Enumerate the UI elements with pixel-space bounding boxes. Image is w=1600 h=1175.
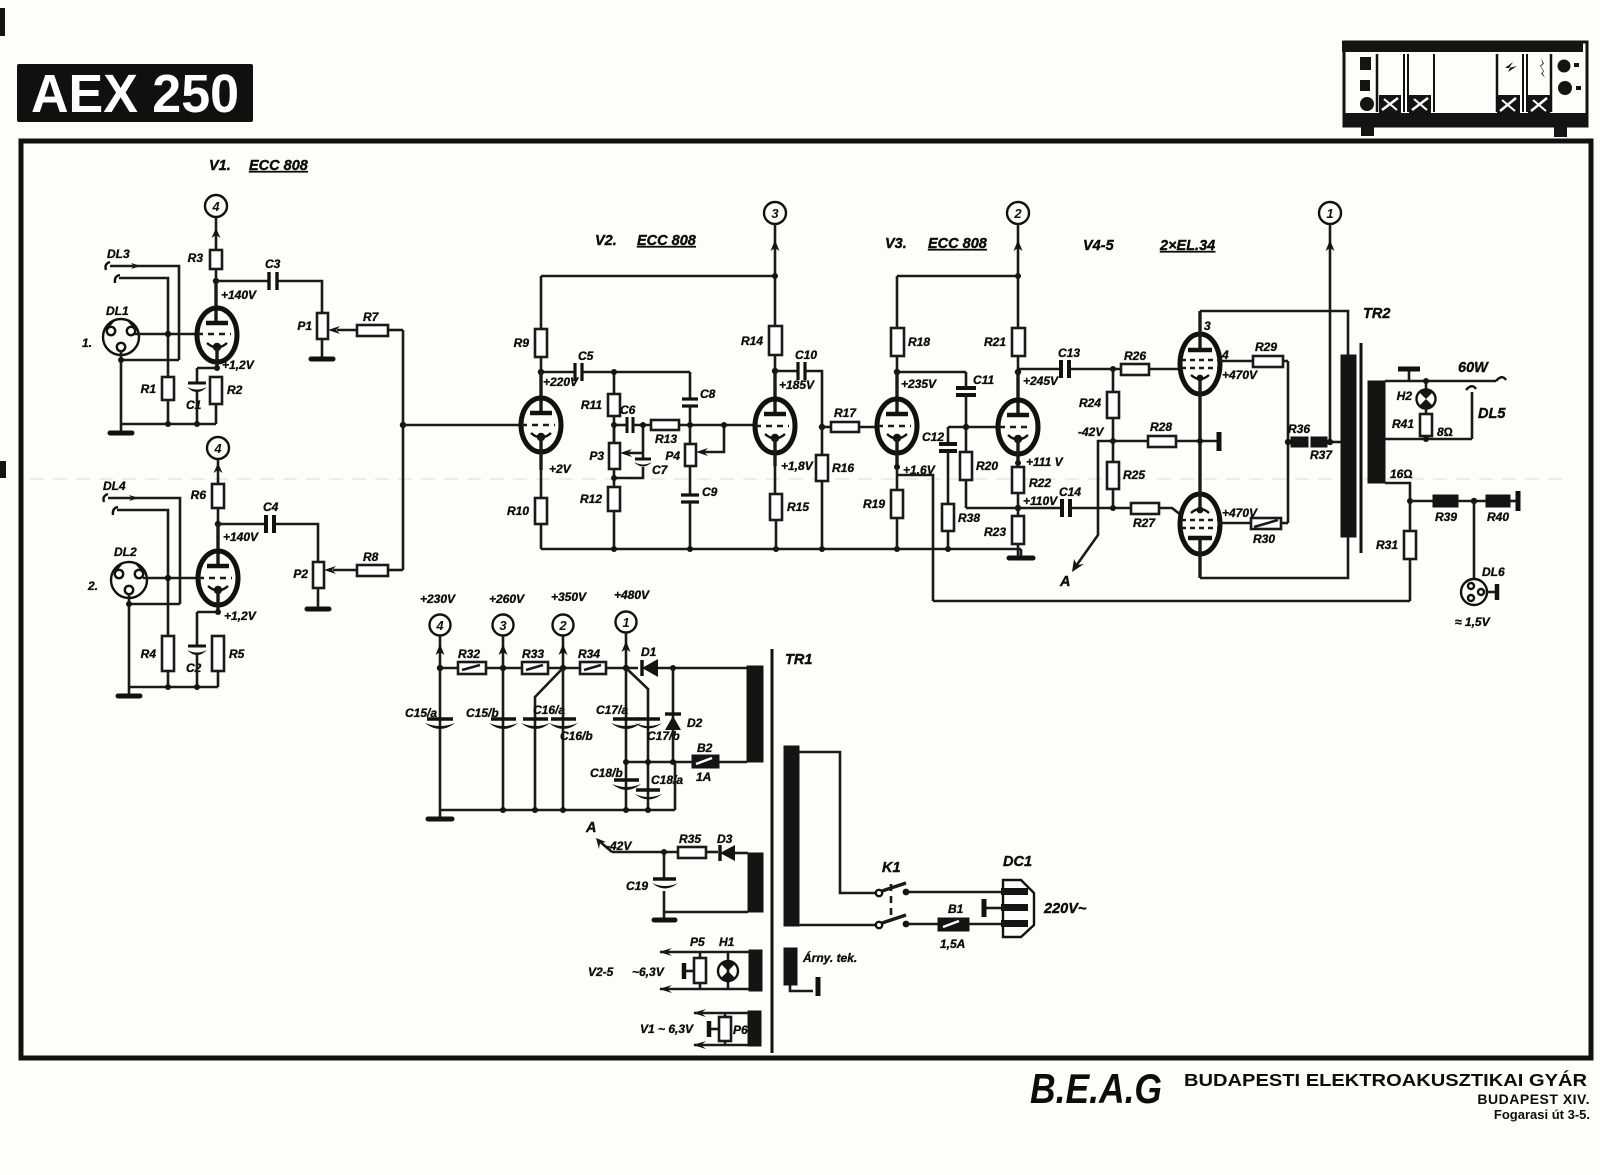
terminal 1 psu [616,612,637,669]
wire diagonal to C16a [535,668,563,810]
svg-text:C8: C8 [700,387,716,401]
svg-text:60W: 60W [1458,360,1489,376]
svg-text:BUDAPESTI ELEKTROAKUSZTIKAI GY: BUDAPESTI ELEKTROAKUSZTIKAI GYÁR [1184,1069,1587,1090]
wire DL2 shell down [128,594,131,687]
diode D1 [641,645,747,677]
resistor R33 [522,647,580,674]
resistor R6 [191,484,224,508]
resistor R25 [1107,441,1145,508]
svg-text:B1: B1 [948,902,964,916]
junction screen bus [1285,439,1291,445]
svg-text:2.: 2. [87,579,98,593]
tube V5 pentode EL34 mirrored [1180,441,1220,578]
svg-text:C6: C6 [620,403,636,417]
node bias midpoint [1110,438,1116,444]
svg-text:C17/b: C17/b [647,729,680,743]
node cathode V1b [215,609,221,615]
wire cap leg C17a [625,668,628,810]
resistor R19 [863,467,903,549]
wire DL1 shell down [120,351,123,424]
wire V4 plate to TR2 [1200,311,1348,356]
resistor R28 [1113,420,1200,447]
wire feedback takeoff [897,475,933,601]
rail V2 supply [541,275,775,278]
bus junctions [611,546,617,552]
wire R9 to plate node [540,357,543,372]
capacitor C9 [681,466,718,549]
svg-text:R40: R40 [1487,510,1509,524]
svg-text:P1: P1 [297,319,312,333]
svg-text:+1,8V: +1,8V [781,459,814,473]
resistor R30 screen V5 [1219,518,1288,546]
resistor R13 [651,420,755,446]
svg-text:R2: R2 [227,383,243,397]
wire primary bottom to K1 [799,924,875,927]
outer frame [21,141,1591,1058]
resistor R34 [578,647,638,674]
svg-text:V2-5: V2-5 [588,965,614,979]
svg-text:TR2: TR2 [1363,306,1390,322]
resistor R39 [1433,495,1486,524]
scan crease line [30,478,1570,480]
svg-text:R34: R34 [578,647,600,661]
svg-text:V1.: V1. [209,158,231,174]
scan edge mark [0,8,5,36]
svg-text:DL6: DL6 [1482,565,1505,579]
wire DL4 pin2 [117,510,168,636]
svg-text:DC1: DC1 [1003,854,1032,870]
svg-text:R13: R13 [655,432,677,446]
svg-text:Árny. tek.: Árny. tek. [802,950,857,965]
junction [1015,273,1021,279]
connector DL3 [106,247,142,283]
capacitor C1 electrolytic [186,368,207,424]
resistor R18 [891,276,930,372]
svg-text:P4: P4 [665,449,680,463]
node plate V1b [215,521,221,527]
svg-text:C11: C11 [973,373,994,387]
node cathode V3a [894,464,900,470]
svg-text:+1,2V: +1,2V [222,358,255,372]
svg-text:V1 ~ 6,3V: V1 ~ 6,3V [640,1022,694,1036]
svg-text:+260V: +260V [489,592,525,606]
wire cap leg C15a [439,668,442,810]
potentiometer P4 [665,425,724,466]
TR1 HV winding [747,666,763,762]
wire C6 branch down [642,425,645,459]
wire node to plate [539,372,542,415]
junction [611,369,617,375]
svg-text:R25: R25 [1123,468,1145,482]
svg-text:1,5A: 1,5A [940,937,965,951]
resistor R14 [741,276,782,371]
connector DL6 [1455,565,1505,629]
svg-text:AEX 250: AEX 250 [31,64,239,124]
switch K1 [876,860,910,928]
junctions on bus [165,684,171,690]
svg-text:R31: R31 [1376,538,1398,552]
svg-text:≈ 1,5V: ≈ 1,5V [1455,615,1491,629]
svg-text:+140V: +140V [221,288,257,302]
resistor R41 [1392,408,1432,439]
wire R3 to node [215,269,218,281]
resistor R3 [188,250,222,269]
svg-text:1A: 1A [696,770,711,784]
terminal 4 (channel 1 plate supply) [205,195,227,217]
ground symbol channel 2 [118,687,140,696]
junction grid/R4 [165,575,171,581]
tube V3a triode [877,399,917,467]
label V2 ECC808 [595,233,697,249]
wire +110V line left to R20 [966,507,1018,510]
ground symbol stage bus [1009,549,1033,558]
junction [118,357,124,363]
svg-text:R39: R39 [1435,510,1457,524]
potentiometer P6 [709,1013,748,1045]
ground P2 [307,588,329,609]
svg-text:+111 V: +111 V [1026,455,1064,469]
junction R16/R17 [819,424,825,430]
svg-text:C10: C10 [795,348,817,362]
resistor R32 [458,647,522,674]
potentiometer P2 [293,562,357,588]
capacitor C14 [1018,485,1131,517]
svg-text:C2: C2 [186,661,202,675]
capacitor C7 electrolytic [614,459,669,478]
junction [126,601,132,607]
wire B2 line [626,761,692,764]
connector DL2 [87,545,147,598]
svg-text:R35: R35 [679,832,701,846]
capacitor C19 [626,852,678,912]
label V4-5 2xEL34 [1083,238,1215,254]
node plate V1a [213,278,219,284]
wire to R11 [613,372,616,394]
potentiometer P5 [684,935,706,989]
rail V3 supply [897,275,1018,278]
wire cap leg C15b [502,668,505,810]
svg-text:B2: B2 [697,741,713,755]
svg-text:+480V: +480V [614,588,650,602]
svg-text:2×EL.34: 2×EL.34 [1159,238,1215,254]
node +110V [1015,505,1021,511]
resistor R38 [942,504,980,549]
wire bus to B2 line [674,762,677,810]
resistor R22 [1012,467,1051,516]
svg-text:BUDAPEST XIV.: BUDAPEST XIV. [1477,1091,1590,1107]
terminal 4 psu [430,615,451,669]
tube V2b triode [755,399,795,466]
tube V2a triode [521,398,561,470]
svg-text:+470V: +470V [1222,368,1258,382]
ground T bar output cathodes [1200,432,1219,451]
diode D3 [717,832,748,861]
node plate V3a [894,369,900,375]
svg-text:C17/a: C17/a [596,703,628,717]
svg-text:R10: R10 [507,504,529,518]
resistor R21 [984,276,1025,372]
svg-text:2: 2 [1013,206,1022,221]
svg-text:C9: C9 [702,485,718,499]
capacitor C6 [614,403,651,433]
wire node to plate [1016,372,1019,417]
wire -42V line [612,851,678,854]
wire screen bus vertical [1287,361,1290,523]
tube V1b triode [198,551,238,612]
svg-text:C16/b: C16/b [560,729,593,743]
svg-text:R30: R30 [1253,532,1275,546]
wire terminal 2 stem with arrow [1014,224,1023,276]
svg-text:C3: C3 [265,257,281,271]
label V1 ECC808 [209,158,309,174]
svg-text:A: A [585,820,596,836]
capacitor C18/a [635,773,683,800]
svg-text:R11: R11 [581,398,602,412]
wire DL2 to grid V1b [143,577,198,580]
svg-text:R32: R32 [458,647,480,661]
wire K1 to DC1 pin1 [906,891,1003,894]
resistor R4 [141,636,174,687]
svg-text:-42V: -42V [1078,425,1104,439]
svg-text:DL4: DL4 [103,479,126,493]
node cathode V3b [1015,460,1021,466]
svg-text:D2: D2 [687,716,703,730]
stage ground bus [541,548,1021,551]
svg-text:R27: R27 [1133,516,1156,530]
svg-text:C19: C19 [626,879,648,893]
svg-text:R41: R41 [1392,417,1414,431]
junction mixing tap [400,422,406,428]
heater wire top V1 [693,1009,748,1017]
wire terminal4 to R3 with arrow [212,218,221,250]
tube V3b triode [998,400,1038,463]
connector DL5 [1466,377,1506,439]
resistor R16 [816,427,854,549]
junction C8 to grid line [687,422,693,428]
connector DL1 [82,304,139,355]
junction R25 bottom [1110,505,1116,511]
terminal 2 psu [553,615,574,669]
svg-text:4: 4 [213,441,222,456]
svg-text:D1: D1 [641,645,657,659]
TR1 core [771,649,774,1053]
resistor R7 [357,310,403,336]
node plate V2b [772,368,778,374]
resistor R8 [357,550,403,576]
svg-text:R26: R26 [1124,349,1146,363]
junction cathode link [1197,438,1203,444]
capacitor C12 [922,427,957,504]
wire cap leg C16b [562,668,565,810]
bus junctions [500,807,506,813]
svg-text:3: 3 [499,618,507,633]
junctions B2 line [623,759,629,765]
junction D2 top [670,665,676,671]
B+ distribution bus [440,667,458,670]
svg-text:+185V: +185V [779,378,815,392]
wire DL3 pin2 [119,278,168,377]
svg-text:Fogarasi út 3-5.: Fogarasi út 3-5. [1494,1107,1590,1122]
junction rail/R14 [772,273,778,279]
svg-text:V2.: V2. [595,233,617,249]
svg-text:P6: P6 [733,1023,748,1037]
resistor R26 [1121,349,1181,375]
ground bus channel 1 [121,423,216,426]
svg-text:D3: D3 [717,832,733,846]
svg-text:R1: R1 [141,382,157,396]
svg-text:P3: P3 [589,449,604,463]
svg-text:4: 4 [211,199,220,214]
svg-text:+110V: +110V [1023,494,1058,508]
svg-text:R9: R9 [514,336,530,350]
capacitor C17/a [596,703,641,729]
svg-text:R19: R19 [863,497,885,511]
amplifier front panel picture [1342,41,1588,137]
wire V3b grid line [948,426,999,429]
junction C6 branch [640,422,646,428]
svg-text:V4-5: V4-5 [1083,238,1115,254]
svg-text:DL5: DL5 [1478,406,1506,422]
wire node to tube plate [216,524,219,568]
svg-text:8Ω: 8Ω [1437,425,1453,439]
wire cathode to C2 branch [197,611,218,614]
svg-text:R38: R38 [958,511,980,525]
resistor R17 [822,406,877,432]
wire bias A arrow [1059,441,1113,590]
connector DL4 [103,479,139,515]
TR2 core [1360,343,1363,553]
wire DL1 shell to DL3 [121,359,179,362]
wire node to plate [895,372,898,416]
svg-text:+230V: +230V [420,592,456,606]
svg-text:H2: H2 [1397,389,1413,403]
svg-text:R17: R17 [834,406,857,420]
resistor R31 [1376,531,1416,601]
resistor R36 [1288,422,1310,447]
TR1 primary winding [784,746,799,926]
label V3 ECC808 [885,236,988,252]
wire DL4 pin1 [108,498,180,604]
wire to R39 [1410,500,1433,503]
fuse B1 [938,902,1003,951]
heater wire bottom V2-5 [659,985,749,993]
junction C11 grid line [963,424,969,430]
svg-text:+2V: +2V [549,462,572,476]
terminal 4 (channel 2 plate supply) [207,437,229,459]
TR2 secondary winding [1368,381,1385,483]
resistor R15 [770,466,809,549]
capacitor C16/b [549,719,593,743]
wire terminal4b to R6 with arrow [214,459,223,484]
svg-text:R5: R5 [229,647,245,661]
svg-text:H1: H1 [719,935,735,949]
capacitor C8 [682,372,716,425]
svg-text:+245V: +245V [1023,374,1059,388]
junction R24 top [1110,366,1116,372]
resistor R5 [212,636,245,687]
svg-text:R4: R4 [141,647,157,661]
junction grid network [611,422,617,428]
svg-text:P5: P5 [690,935,705,949]
svg-text:R12: R12 [580,492,602,506]
wire mixing bus vertical [402,330,405,570]
svg-text:C14: C14 [1059,485,1081,499]
capacitor C3 [216,257,322,313]
svg-text:R24: R24 [1079,396,1101,410]
svg-text:R6: R6 [191,488,207,502]
tube V1a triode [197,308,237,368]
svg-text:1.: 1. [82,336,92,350]
svg-text:R18: R18 [908,335,930,349]
svg-text:R16: R16 [832,461,854,475]
wire terminal 3 stem with arrow [771,224,780,276]
scan edge mark [0,461,6,478]
svg-text:2: 2 [558,618,567,633]
ground symbol channel 1 [110,424,132,433]
svg-text:16Ω: 16Ω [1390,467,1413,481]
svg-text:C12: C12 [922,430,944,444]
bias A arrow psu [585,820,612,852]
svg-text:C1: C1 [186,398,202,412]
svg-text:ECC 808: ECC 808 [249,158,309,174]
svg-text:R28: R28 [1150,420,1172,434]
svg-text:+140V: +140V [223,530,259,544]
junction R41 [1423,436,1429,442]
wire cathode to C1 branch [197,367,217,370]
terminal 2 [1007,202,1029,224]
svg-text:TR1: TR1 [785,652,812,668]
resistor R40 [1486,491,1518,524]
svg-text:V3.: V3. [885,236,907,252]
psu bottom bus [440,809,675,812]
junction P4 wiper [721,422,727,428]
svg-text:K1: K1 [882,860,901,876]
svg-text:ECC 808: ECC 808 [637,233,697,249]
fuse B2 [692,741,747,784]
wire DL1 to grid V1a [135,333,197,336]
wire terminal 1 stem with arrow [1326,224,1335,442]
resistor R24 [1079,369,1119,441]
junction C19 [661,849,667,855]
TR1 heater winding V1 [748,1011,761,1046]
ground psu [428,810,452,819]
junction grid/R1 [165,331,171,337]
svg-text:DL2: DL2 [114,545,137,559]
junction 16 ohm R39 [1407,498,1413,504]
wire DL2 shell to DL4 [129,603,180,606]
svg-text:R22: R22 [1029,476,1051,490]
wire R37 to TR2 primary centre [1327,441,1342,444]
capacitor C13 [1018,346,1121,378]
heater wire bottom V1 [693,1041,748,1049]
capacitor C18/b [590,766,641,790]
resistor R35 [678,832,718,858]
resistor R1 [141,377,174,424]
svg-text:ECC 808: ECC 808 [928,236,988,252]
heater wire top V2-5 [659,948,749,956]
svg-text:C7: C7 [652,463,669,477]
capacitor C15/b [466,706,518,729]
wire to V2a grid [403,424,521,427]
wire R6 to node [217,508,220,524]
svg-text:+1,2V: +1,2V [224,609,257,623]
svg-text:C13: C13 [1058,346,1080,360]
svg-text:R7: R7 [363,310,380,324]
terminal 3 psu [493,615,514,669]
capacitor C15/a [405,706,455,729]
svg-text:C16/a: C16/a [533,703,565,717]
svg-text:220V~: 220V~ [1043,901,1087,917]
